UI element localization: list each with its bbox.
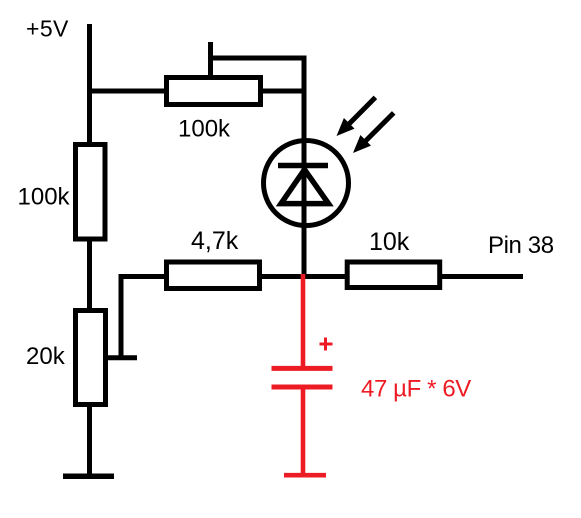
svg-text:20k: 20k: [26, 343, 66, 370]
svg-text:10k: 10k: [369, 228, 410, 256]
resistor 10k body: [347, 262, 440, 288]
ground symbol red (capacitor): [284, 473, 326, 478]
wire bottom horizontal net: [119, 274, 524, 279]
wire wiper to right vertical: [208, 56, 304, 61]
wire red capacitor bottom lead: [301, 387, 306, 474]
wire left rail from +5V down: [87, 24, 92, 312]
wire branch to top resistor: [87, 89, 168, 94]
wire 20k wiper vertical: [119, 274, 124, 358]
wire 20k wiper stub: [106, 355, 137, 360]
light arrow 2: [353, 113, 394, 153]
photodiode D1 circle: [264, 141, 349, 226]
capacitor C1 bottom plate: [272, 385, 333, 390]
resistor 100k potentiometer body (top): [167, 78, 261, 105]
svg-text:100k: 100k: [178, 115, 231, 142]
svg-text:100k: 100k: [18, 184, 71, 211]
wire vertical through photodiode: [302, 56, 307, 280]
svg-text:4,7k: 4,7k: [191, 227, 239, 255]
wire red capacitor top lead: [301, 274, 306, 368]
svg-text:+5V: +5V: [26, 15, 69, 41]
resistor 4,7k body: [167, 262, 260, 289]
resistor 20k potentiometer body: [76, 311, 106, 405]
svg-text:47 µF * 6V: 47 µF * 6V: [361, 376, 471, 403]
svg-text:Pin 38: Pin 38: [488, 232, 554, 259]
wire 20k to ground: [87, 405, 92, 475]
photodiode cathode bar: [278, 163, 328, 169]
capacitor C1 top plate: [272, 366, 333, 371]
capacitor polarity + mark: [320, 338, 333, 351]
wire right lead of top resistor: [260, 89, 306, 94]
light arrow 1: [337, 97, 376, 136]
wire potentiometer wiper stub: [208, 42, 213, 78]
ground symbol (black): [63, 474, 114, 480]
resistor 100k (left vertical): [76, 145, 106, 240]
photodiode triangle: [281, 170, 329, 204]
